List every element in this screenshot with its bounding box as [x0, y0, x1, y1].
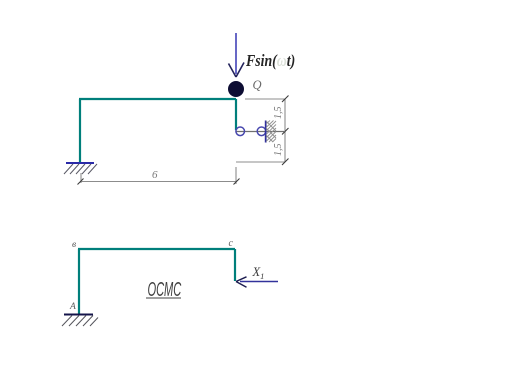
hinge circle 1 — [236, 127, 245, 136]
tick right of dim 6 — [234, 179, 240, 185]
frame member right stub (top frame) — [235, 99, 237, 130]
link axis line — [236, 131, 284, 133]
hinge circle 2 — [257, 127, 266, 136]
wall hatch — [266, 121, 276, 143]
svg-text:c: c — [229, 238, 234, 249]
extension line below right corner — [235, 167, 237, 184]
label Fsin(wt) — [245, 52, 295, 70]
svg-text:1,5: 1,5 — [273, 107, 284, 120]
dimension line 6 — [80, 181, 237, 183]
lower frame member C stub — [234, 249, 236, 281]
tick top — [282, 96, 289, 103]
svg-text:1,5: 1,5 — [273, 144, 284, 157]
force arrow X1 — [236, 277, 278, 288]
svg-text:A: A — [69, 302, 76, 312]
frame member left column (top frame) — [79, 99, 81, 163]
force arrow F — [229, 33, 245, 77]
lower frame member B-C (top beam) — [78, 248, 235, 250]
underline of OCMC — [146, 297, 181, 299]
fixed support (top frame base) — [64, 163, 97, 174]
vertical dimension line — [284, 99, 286, 162]
svg-text:в: в — [72, 240, 76, 250]
fixed support A (lower frame) — [62, 315, 98, 327]
extension line below left support — [80, 173, 82, 183]
tick bottom — [282, 159, 289, 166]
lower frame member A-B (left column) — [78, 249, 80, 314]
mass Q (ball) — [228, 81, 244, 97]
extension line at level of support base (right) — [236, 161, 285, 163]
wall line of link support — [265, 121, 267, 143]
label OCMC underlined — [148, 279, 182, 301]
svg-text:Q: Q — [253, 78, 262, 92]
svg-text:6: 6 — [152, 169, 158, 181]
extension line from ball level to dimension line — [245, 98, 285, 100]
tick left of dim 6 — [78, 179, 84, 185]
frame member top beam (top frame) — [79, 98, 236, 100]
svg-text:Fsin(ωt): Fsin(ωt) — [245, 52, 295, 70]
tick middle — [282, 128, 289, 135]
